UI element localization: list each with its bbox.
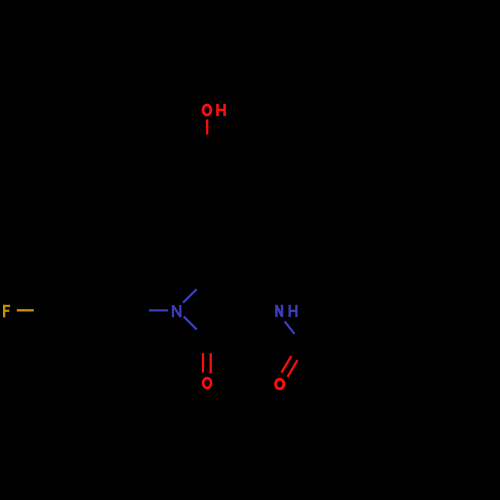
amide carbonyl O label [276, 379, 284, 389]
bond N-C2(=O), nitrogen half [184, 317, 197, 330]
amide chain and phenyl [248, 311, 444, 347]
amide NH label [276, 305, 296, 317]
amide C=O double bond, oxygen half (two lines) [282, 356, 298, 377]
lactam ring carbons [210, 277, 248, 342]
bond N-C5(ring), nitrogen half [183, 289, 197, 303]
ring nitrogen N label [173, 305, 181, 317]
bond F-C(aryl), fluorine half [17, 309, 34, 311]
bond NH-C(=O) amide, nitrogen half [285, 321, 295, 334]
fluorophenyl ring [52, 270, 148, 352]
lactam C2=O double bond, oxygen half (two lines) [203, 353, 211, 373]
bond C(aryl)-C5(lactam ring) [207, 254, 210, 277]
hydroxyl OH label [203, 104, 225, 116]
fluorine F label [3, 305, 10, 318]
bond N-C(fluorophenyl), nitrogen half [149, 309, 168, 311]
bond O-C(aryl) phenol, oxygen half [206, 119, 208, 134]
invisible carbon skeleton: phenol ring [52, 158, 444, 352]
lactam carbonyl O label [203, 378, 211, 388]
